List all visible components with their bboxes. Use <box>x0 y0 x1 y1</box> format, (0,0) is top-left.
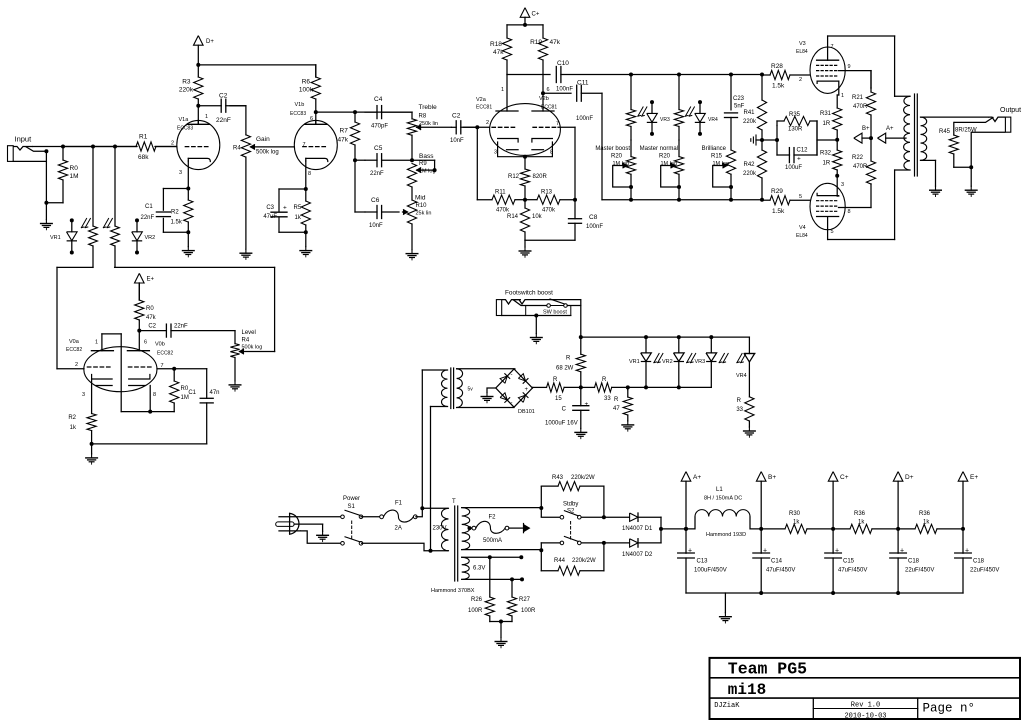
twin triode V0a V0b ECC82 <box>84 347 157 392</box>
wire V0a plate loop <box>101 334 103 351</box>
svg-text:5: 5 <box>799 194 802 200</box>
LED VR3 footswitch <box>710 337 712 353</box>
capacitor C12 100uF <box>777 154 790 156</box>
svg-text:100k: 100k <box>299 87 314 94</box>
svg-text:8H / 150mA DC: 8H / 150mA DC <box>704 496 742 502</box>
mains plug <box>276 513 343 543</box>
svg-text:R44: R44 <box>554 558 566 564</box>
svg-text:470R: 470R <box>853 164 868 170</box>
svg-text:7: 7 <box>302 142 305 148</box>
wire LED bottom rail <box>627 387 629 389</box>
svg-text:V2a: V2a <box>476 97 487 103</box>
svg-text:R: R <box>553 377 558 383</box>
resistor R44 220k/2W <box>540 543 542 571</box>
svg-text:7: 7 <box>556 121 559 127</box>
capacitor C6 10nF <box>376 206 378 219</box>
svg-text:33: 33 <box>736 407 743 413</box>
svg-text:C18: C18 <box>973 559 985 565</box>
resistor R0 1M boost <box>173 369 175 381</box>
svg-text:R45: R45 <box>939 129 951 135</box>
svg-text:D+: D+ <box>905 474 914 481</box>
svg-text:EL84: EL84 <box>796 49 808 55</box>
wire 5v secondary to bridge <box>457 368 514 370</box>
wire R45 to ground <box>954 166 971 168</box>
svg-text:5: 5 <box>831 229 834 235</box>
svg-text:1k: 1k <box>295 215 302 221</box>
resistor R0 1M <box>62 147 64 161</box>
resistor R 33 VR4 <box>745 397 754 421</box>
svg-text:C2: C2 <box>148 324 156 330</box>
svg-text:+: + <box>525 387 529 393</box>
resistor R43 220k/2W <box>540 486 542 517</box>
svg-text:Power: Power <box>343 496 360 502</box>
ground input <box>45 203 47 220</box>
svg-text:C5: C5 <box>374 145 383 152</box>
svg-text:R1: R1 <box>139 134 148 141</box>
svg-text:470k: 470k <box>496 208 510 214</box>
svg-text:C18: C18 <box>908 559 920 565</box>
LED VR2 footswitch <box>678 337 680 353</box>
svg-text:C3: C3 <box>266 205 274 211</box>
power flag E+ supply <box>958 472 968 482</box>
svg-text:C+: C+ <box>840 474 849 481</box>
svg-text:47uF: 47uF <box>263 214 277 220</box>
svg-text:F2: F2 <box>489 515 497 521</box>
wire C10 to master rail <box>561 74 762 76</box>
svg-text:C1: C1 <box>145 204 153 210</box>
resistor R36 1k <box>833 528 850 530</box>
wire V2 cathode junction <box>523 155 527 159</box>
wire bridge output <box>531 386 533 389</box>
resistor R29 1.5k <box>762 199 770 201</box>
potentiometer R4 Level 500k log <box>234 331 236 344</box>
svg-text:47k: 47k <box>493 49 504 56</box>
svg-text:33: 33 <box>604 396 611 402</box>
svg-text:3: 3 <box>494 150 497 156</box>
capacitor C8 100nF <box>569 218 582 220</box>
capacitor C2 22nF boost <box>165 324 167 337</box>
svg-text:68k: 68k <box>138 154 149 161</box>
svg-text:R11: R11 <box>495 190 506 196</box>
diode D2 1N4007 <box>604 542 629 544</box>
pentode V4 EL84 <box>810 183 845 229</box>
svg-text:10nF: 10nF <box>369 223 383 229</box>
svg-text:8: 8 <box>848 209 851 215</box>
svg-text:R29: R29 <box>771 188 783 195</box>
svg-text:47k: 47k <box>338 137 349 144</box>
svg-text:47k: 47k <box>146 315 157 321</box>
svg-text:2: 2 <box>171 141 174 147</box>
wire 6.3V bottom <box>462 578 522 580</box>
svg-text:R2: R2 <box>171 210 179 216</box>
svg-text:R43: R43 <box>552 475 564 481</box>
svg-text:R26: R26 <box>471 597 483 603</box>
svg-text:E+: E+ <box>970 474 978 481</box>
svg-text:ECC82: ECC82 <box>66 347 82 353</box>
svg-text:Mid: Mid <box>415 195 426 202</box>
svg-text:EL84: EL84 <box>796 233 808 239</box>
resistor R32 1R <box>836 140 838 150</box>
svg-text:1.5k: 1.5k <box>772 83 785 90</box>
wire R26 R27 join <box>490 621 512 623</box>
svg-text:C4: C4 <box>374 96 383 103</box>
capacitor C23 5nF <box>730 75 732 110</box>
svg-text:R4: R4 <box>233 146 241 152</box>
svg-text:R28: R28 <box>771 63 783 70</box>
twin triode V2a V2b ECC81 <box>490 104 561 156</box>
ground bridge <box>487 388 496 393</box>
svg-text:VR3: VR3 <box>695 359 706 365</box>
svg-text:C10: C10 <box>557 60 569 67</box>
wire S1 bottom to transformer <box>361 543 449 550</box>
svg-text:R21: R21 <box>852 95 864 101</box>
capacitor C2 10nF coupling <box>455 121 457 134</box>
svg-text:1M log: 1M log <box>660 161 677 167</box>
svg-text:1M log: 1M log <box>712 161 729 167</box>
ground gain pot <box>245 249 247 253</box>
svg-text:2: 2 <box>486 120 489 126</box>
capacitor C18 22uF/450V second <box>962 529 964 553</box>
potentiometer R10 Mid 25k lin <box>403 211 408 213</box>
wire V3 plate pin7 <box>827 36 829 60</box>
svg-text:C: C <box>562 407 567 413</box>
svg-text:220k: 220k <box>179 87 194 94</box>
svg-text:D+: D+ <box>206 39 214 45</box>
wire HT top <box>462 507 542 509</box>
optocoupler LED VR3 <box>651 102 653 113</box>
svg-text:V0b: V0b <box>155 342 165 348</box>
resistor R 68 2W <box>576 354 585 372</box>
svg-text:1k: 1k <box>70 425 77 431</box>
capacitor C14 47uF/450V <box>760 529 762 553</box>
svg-text:V0a: V0a <box>69 339 80 345</box>
optocoupler LED VR1 <box>71 220 73 231</box>
svg-text:22uF/450V: 22uF/450V <box>905 568 934 574</box>
power flag B+ <box>854 133 862 143</box>
svg-text:R2: R2 <box>68 415 76 421</box>
svg-text:230V: 230V <box>433 526 447 532</box>
svg-text:1M log: 1M log <box>419 169 436 175</box>
optocoupler LDR master boost <box>630 75 632 110</box>
svg-text:R8: R8 <box>419 114 427 120</box>
resistor R3 220k <box>197 65 199 77</box>
svg-text:R41: R41 <box>743 110 755 116</box>
wire cathode bottom rail <box>92 443 207 445</box>
svg-text:500mA: 500mA <box>483 538 502 544</box>
wire V2a plate pin1 <box>506 75 508 112</box>
wire V1a plate <box>197 106 199 125</box>
wire tone row top <box>316 111 412 113</box>
svg-text:VR2: VR2 <box>145 235 156 241</box>
ground OT secondary <box>935 186 937 190</box>
resistor R2 1.5k <box>187 189 189 201</box>
svg-text:3: 3 <box>82 392 85 398</box>
svg-text:R32: R32 <box>820 151 832 157</box>
svg-text:-: - <box>511 401 513 407</box>
svg-text:R9: R9 <box>419 161 427 167</box>
svg-text:1R: 1R <box>823 121 831 127</box>
svg-text:22nF: 22nF <box>141 215 155 221</box>
ground output <box>970 186 972 190</box>
svg-text:Master boost: Master boost <box>595 146 630 152</box>
svg-text:F1: F1 <box>395 501 403 507</box>
svg-text:VR4: VR4 <box>708 117 718 123</box>
potentiometer R15 Brilliance 1M log <box>726 150 735 174</box>
resistor R35 130R <box>776 126 778 156</box>
svg-text:R19: R19 <box>530 39 542 46</box>
svg-text:6: 6 <box>144 340 147 346</box>
svg-text:6.3V: 6.3V <box>473 566 485 572</box>
wire V1a grid <box>155 146 177 148</box>
wire V3 cathode <box>838 81 840 95</box>
output jack <box>954 107 1021 167</box>
svg-text:V1a: V1a <box>179 117 190 123</box>
capacitor C3 47uF <box>279 188 306 190</box>
diode D1 1N4007 <box>604 516 629 518</box>
wire to R35 block <box>762 139 777 141</box>
power flag B+ supply <box>756 472 766 482</box>
resistor R28 1.5k <box>762 74 770 76</box>
svg-text:1k: 1k <box>923 520 930 526</box>
wire D+ rail <box>198 64 315 66</box>
optocoupler LDR 1 <box>92 147 94 227</box>
svg-text:V1b: V1b <box>295 102 305 108</box>
triode V1b ECC83 <box>294 120 337 169</box>
svg-text:250k lin: 250k lin <box>419 121 438 127</box>
wire V2b grid pin7 <box>558 126 575 128</box>
svg-text:1: 1 <box>841 93 844 99</box>
svg-text:-: - <box>511 372 513 378</box>
svg-text:+: + <box>283 205 287 212</box>
svg-text:+: + <box>688 548 692 555</box>
svg-text:2: 2 <box>75 362 78 368</box>
capacitor C4 470pF <box>376 106 378 119</box>
svg-text:220k: 220k <box>743 119 757 125</box>
fuse F1 2A <box>361 516 382 518</box>
svg-text:Master normal: Master normal <box>640 146 678 152</box>
svg-text:47uF/450V: 47uF/450V <box>838 568 867 574</box>
power flag D+ <box>194 36 204 46</box>
ground V1b cathode <box>305 232 307 246</box>
svg-text:8: 8 <box>308 171 311 177</box>
svg-text:S1: S1 <box>348 504 356 510</box>
transformer OT core <box>914 94 916 176</box>
wire 6.3V top <box>462 556 522 558</box>
svg-text:C12: C12 <box>797 148 809 154</box>
svg-text:1: 1 <box>205 114 208 120</box>
svg-text:ECC83: ECC83 <box>290 111 306 117</box>
svg-text:C14: C14 <box>771 559 783 565</box>
svg-text:500k log: 500k log <box>256 150 279 156</box>
capacitor C15 47uF/450V <box>832 529 834 553</box>
transformer 5v secondary <box>457 369 463 408</box>
power flag C+ supply <box>828 472 838 482</box>
svg-text:V3: V3 <box>799 41 806 47</box>
resistor R2 1k <box>87 414 96 431</box>
svg-text:6: 6 <box>547 87 550 93</box>
svg-text:8R/25W: 8R/25W <box>955 128 977 134</box>
wire HT bottom <box>462 549 542 551</box>
ground VR4 <box>748 427 750 431</box>
optocoupler LDR master normal <box>678 75 680 110</box>
resistor R41 220k <box>761 75 763 101</box>
svg-text:Level: Level <box>242 330 256 336</box>
transformer 5v core <box>450 368 452 409</box>
svg-text:10nF: 10nF <box>450 138 464 144</box>
svg-text:C1: C1 <box>188 390 196 396</box>
ground C 1000uF <box>580 428 582 432</box>
svg-text:VR4: VR4 <box>736 373 747 379</box>
wire tone mid <box>354 160 356 212</box>
power flag A+ <box>878 133 886 143</box>
svg-text:47n: 47n <box>210 390 220 396</box>
svg-text:C6: C6 <box>371 197 380 204</box>
svg-text:Input: Input <box>15 135 33 144</box>
svg-text:Output: Output <box>1000 107 1021 114</box>
svg-text:C2: C2 <box>452 113 461 120</box>
wire V0a cathode pin3 <box>91 379 93 414</box>
svg-text:R20: R20 <box>611 154 623 160</box>
capacitor C5 22nF <box>355 159 365 161</box>
wire footswitch node <box>580 300 582 355</box>
svg-text:R35: R35 <box>789 112 801 118</box>
svg-text:100nF: 100nF <box>556 87 573 93</box>
ground V1a cathode <box>187 232 189 246</box>
wire input row <box>33 146 137 148</box>
ground footswitch jack <box>535 316 537 334</box>
wire OT secondary top <box>921 116 989 118</box>
svg-text:7: 7 <box>831 44 834 50</box>
potentiometer R4 Gain 500k log <box>230 105 246 107</box>
resistor R12 820R <box>524 157 526 169</box>
transformer T HT secondary <box>462 508 470 550</box>
svg-text:820R: 820R <box>533 174 548 180</box>
wire V4 cathode <box>836 176 838 196</box>
wire LED rail <box>581 336 750 338</box>
svg-text:1N4007 D2: 1N4007 D2 <box>622 552 653 558</box>
svg-text:C+: C+ <box>532 12 540 18</box>
potentiometer R9 Bass 1M log <box>407 164 416 188</box>
resistor R13 470k <box>525 199 537 201</box>
capacitor C18 22uF/450V <box>897 529 899 553</box>
svg-text:Hammond 193D: Hammond 193D <box>706 532 746 538</box>
svg-text:B+: B+ <box>862 126 870 132</box>
optocoupler LDR 2 <box>114 147 116 227</box>
svg-text:VR1: VR1 <box>50 235 61 241</box>
svg-text:+: + <box>763 548 767 555</box>
svg-text:C13: C13 <box>697 559 709 565</box>
svg-text:1M log: 1M log <box>612 161 629 167</box>
wire V0b plate pin6 <box>138 331 140 351</box>
svg-text:Team PG5: Team PG5 <box>728 660 807 679</box>
svg-text:T: T <box>452 499 456 505</box>
svg-text:47uF/450V: 47uF/450V <box>766 568 795 574</box>
svg-text:22nF: 22nF <box>216 117 231 124</box>
svg-text:R7: R7 <box>340 128 349 135</box>
power flag A+ supply <box>681 472 691 482</box>
svg-text:VR3: VR3 <box>660 117 670 123</box>
resistor R5 1k <box>305 189 307 201</box>
svg-text:1k: 1k <box>858 520 865 526</box>
wire V0b grid pin7 <box>157 368 207 370</box>
wire V2b plate pin6 <box>542 93 544 111</box>
fuse F2 500mA <box>468 526 472 530</box>
svg-text:ECC81: ECC81 <box>476 105 492 111</box>
capacitor C2 22nF <box>220 99 222 112</box>
svg-text:DB101: DB101 <box>518 409 535 415</box>
svg-text:470k: 470k <box>542 208 556 214</box>
wire V0b cathode pin8 <box>149 386 151 412</box>
svg-text:R30: R30 <box>789 511 801 517</box>
svg-text:R36: R36 <box>919 511 931 517</box>
svg-text:130R: 130R <box>788 127 803 133</box>
svg-text:R: R <box>737 398 742 404</box>
ground mid pot <box>411 250 413 254</box>
ground R47 <box>627 421 629 425</box>
svg-text:1.5k: 1.5k <box>171 220 183 226</box>
svg-text:22uF/450V: 22uF/450V <box>970 568 999 574</box>
resistor R45 8R/25W <box>953 122 955 135</box>
wire V1a cathode <box>187 161 189 189</box>
transformer OT secondary <box>921 117 927 160</box>
resistor R42 220k <box>761 140 763 150</box>
ground mains earth <box>322 531 324 535</box>
wire V1b cathode <box>305 161 307 189</box>
svg-text:R6: R6 <box>302 79 311 86</box>
svg-text:R: R <box>602 377 607 383</box>
svg-text:15: 15 <box>555 396 562 402</box>
svg-text:VR2: VR2 <box>662 359 673 365</box>
svg-text:100nF: 100nF <box>586 224 603 230</box>
resistor R7 47k <box>354 112 356 122</box>
svg-text:R20: R20 <box>659 154 671 160</box>
resistor R11 470k <box>477 199 492 201</box>
svg-text:ECC83: ECC83 <box>177 126 193 132</box>
capacitor C1 47n <box>200 397 213 399</box>
wire block to cathode node <box>817 139 837 141</box>
svg-text:ECC82: ECC82 <box>157 351 173 357</box>
svg-text:A+: A+ <box>886 126 894 132</box>
optocoupler LED VR4 <box>699 102 701 113</box>
capacitor C10 100nF <box>507 74 550 76</box>
svg-text:R0: R0 <box>70 165 79 172</box>
resistor R31 1R <box>836 95 838 108</box>
svg-text:+: + <box>797 156 801 163</box>
svg-text:6: 6 <box>310 116 313 122</box>
svg-text:8: 8 <box>550 150 553 156</box>
svg-text:220k/2W: 220k/2W <box>572 558 596 564</box>
wire 5v primary to mains <box>421 370 423 508</box>
resistor R1 68k <box>63 146 136 148</box>
svg-text:R12: R12 <box>508 174 520 180</box>
wire rectifier join <box>660 517 662 543</box>
svg-text:1R: 1R <box>823 161 831 167</box>
svg-text:1.5k: 1.5k <box>772 208 785 215</box>
svg-text:R5: R5 <box>294 205 302 211</box>
bridge rectifier DB101 <box>496 369 535 415</box>
svg-text:A+: A+ <box>693 474 701 481</box>
svg-text:+: + <box>900 548 904 555</box>
svg-text:22nF: 22nF <box>370 171 384 177</box>
resistor R19 47k <box>542 25 544 38</box>
capacitor C13 100uF/450V <box>684 527 688 531</box>
transformer OT primary <box>904 96 910 170</box>
svg-text:Footswitch boost: Footswitch boost <box>505 290 553 297</box>
svg-text:1000uF 16V: 1000uF 16V <box>545 421 578 427</box>
svg-text:Bass: Bass <box>419 153 434 160</box>
ground level pot <box>234 381 236 385</box>
svg-text:SW boost: SW boost <box>543 310 567 316</box>
